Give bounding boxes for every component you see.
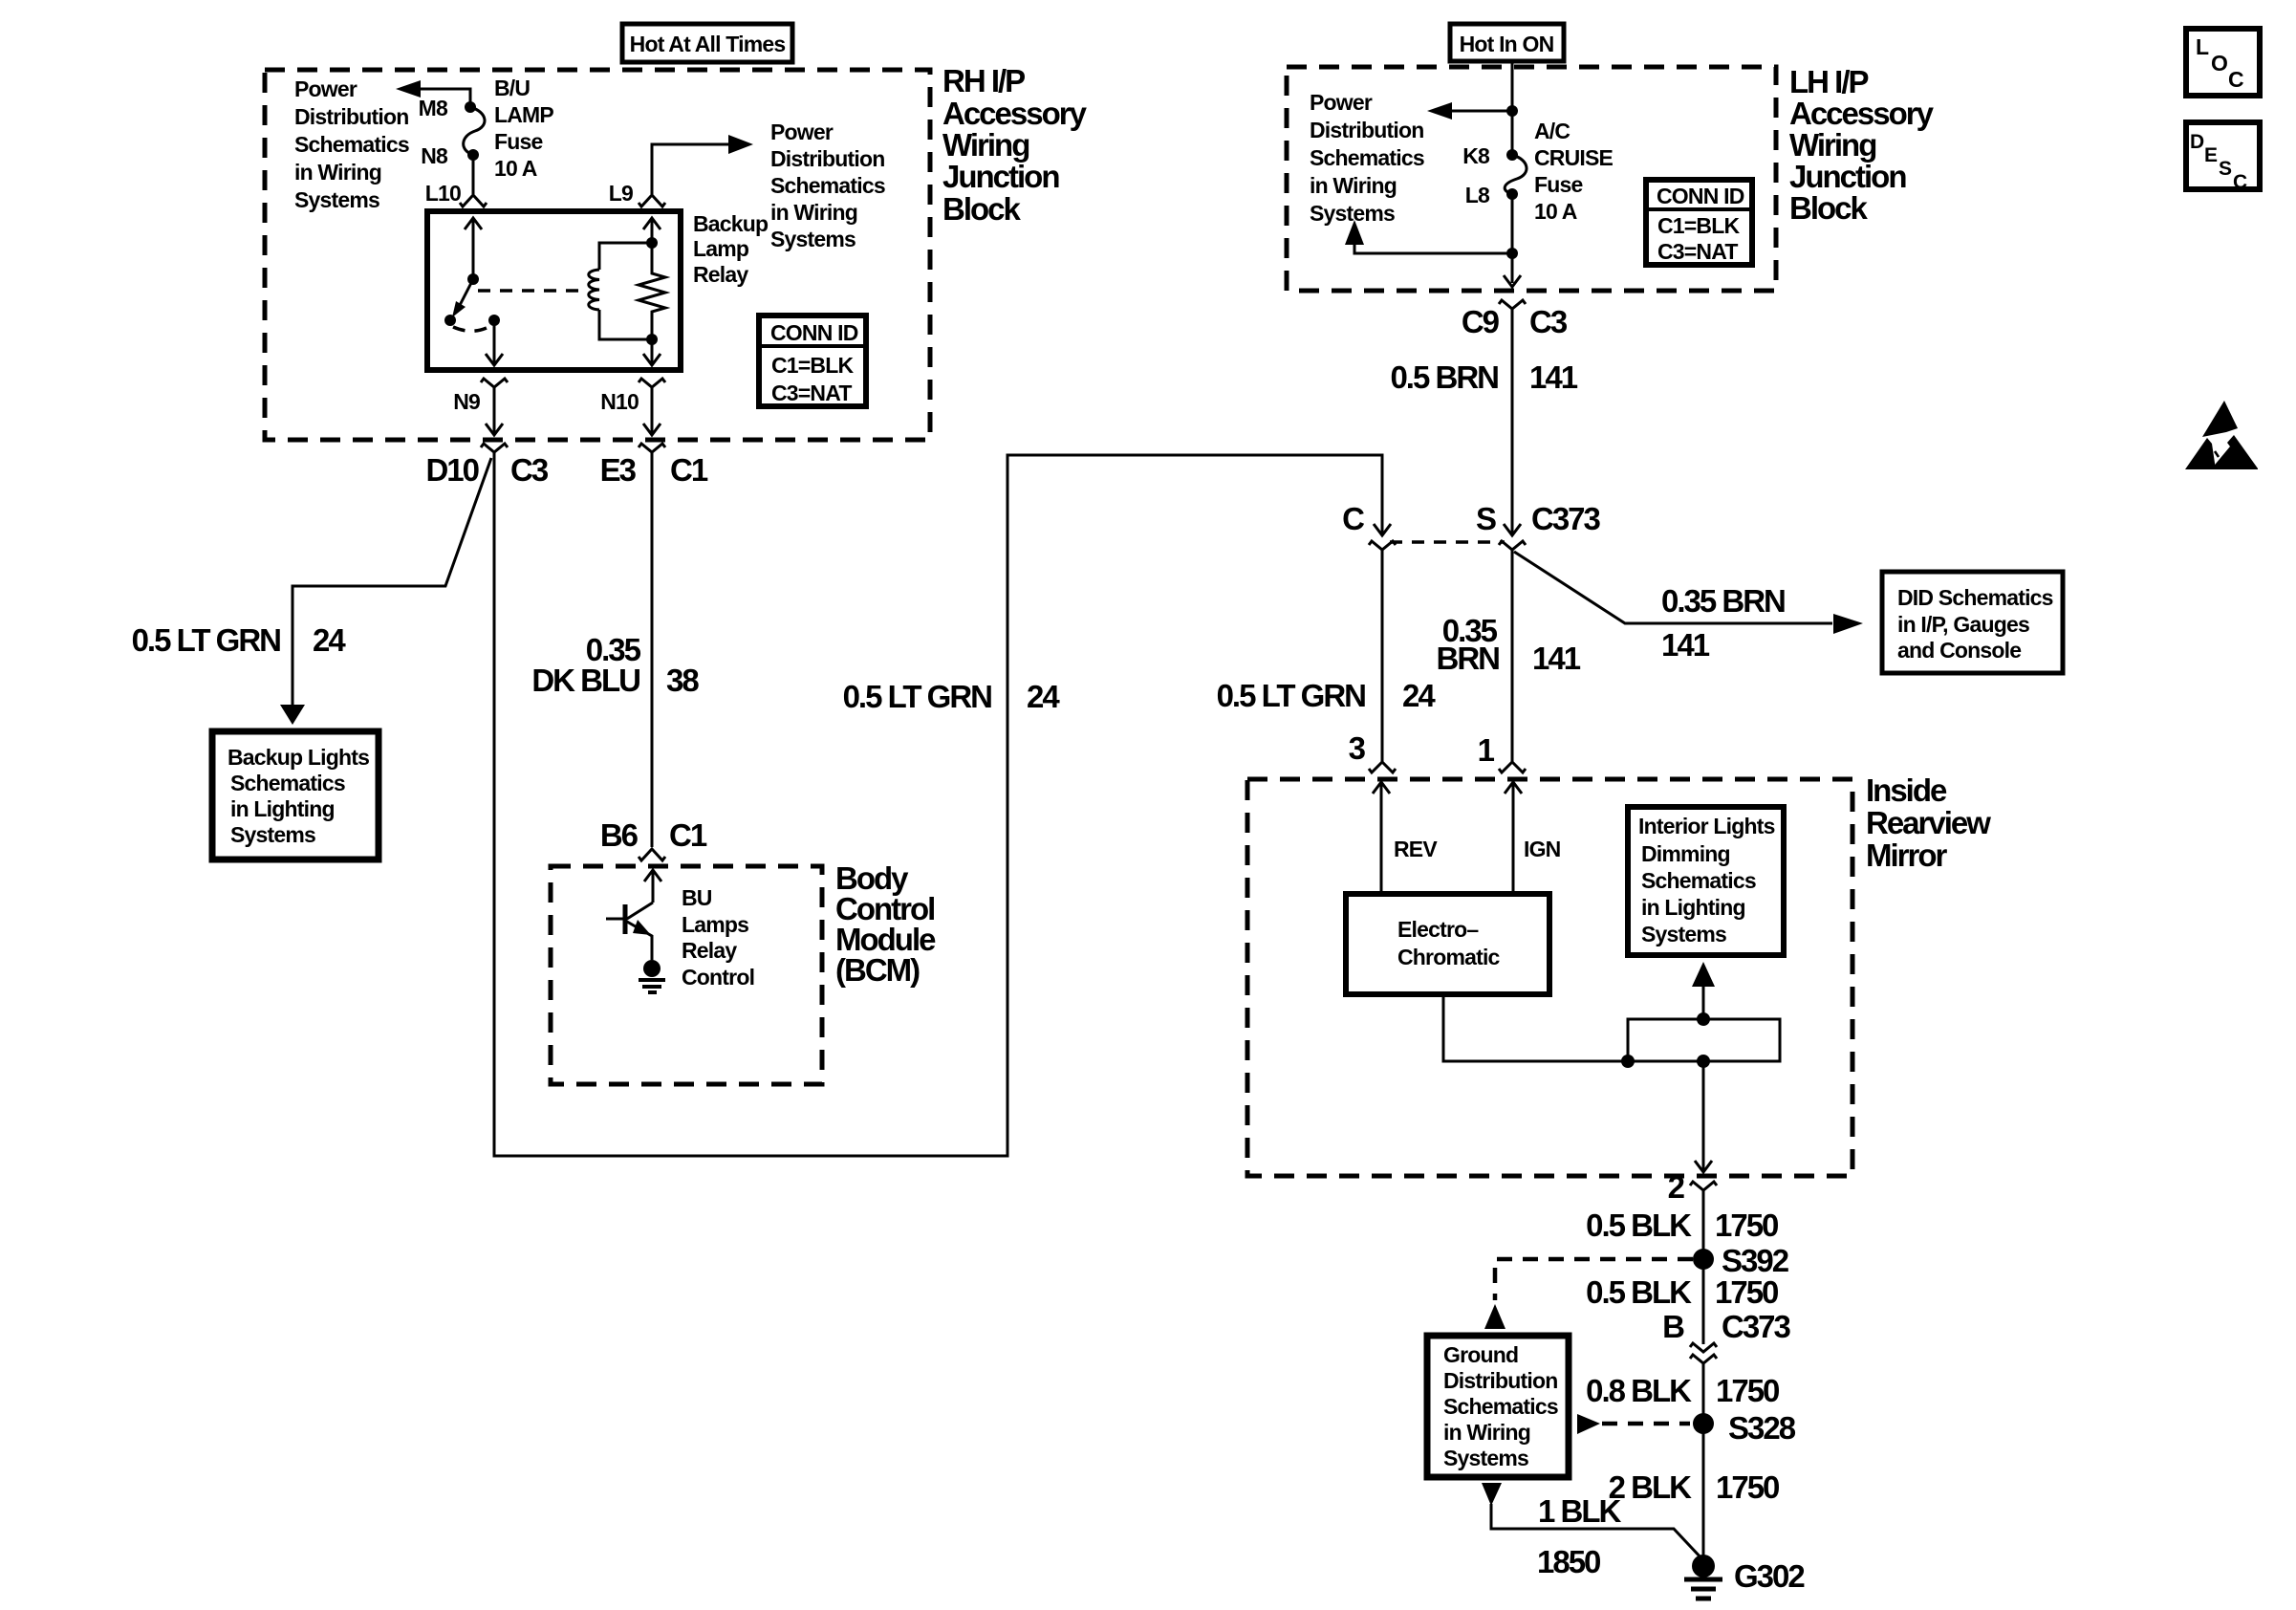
label "Inside Rearview Mirror"	[1866, 772, 1991, 873]
relay switch pivot dot	[467, 273, 479, 285]
wire down from rect tap to box edge with arrow	[1695, 1061, 1712, 1172]
fuse F-BU top terminal dot M8	[465, 101, 476, 113]
svg-text:Lamps: Lamps	[682, 912, 748, 937]
LH I/P Accessory Wiring Junction Block dashed box	[1287, 67, 1776, 291]
svg-text:CONN ID: CONN ID	[1657, 184, 1744, 208]
junction dot coil bottom	[646, 334, 658, 345]
svg-text:Schematics: Schematics	[294, 132, 409, 157]
svg-text:C3=NAT: C3=NAT	[771, 381, 852, 405]
relay right pin arrow (up)	[643, 218, 661, 243]
dashed reference from box to S328	[1602, 1422, 1690, 1426]
svg-text:in Wiring: in Wiring	[1310, 173, 1397, 198]
fuse F-BU bottom terminal dot N8	[467, 149, 479, 161]
svg-text:Systems: Systems	[770, 227, 856, 251]
label box "Hot In ON"	[1450, 24, 1564, 61]
connector chevron C9 (opens up)	[1499, 300, 1526, 309]
svg-text:141: 141	[1532, 641, 1581, 676]
svg-text:C: C	[2228, 67, 2243, 92]
svg-text:D10: D10	[425, 452, 478, 488]
text "B/U LAMP Fuse 10 A"	[494, 76, 553, 181]
svg-text:Schematics: Schematics	[1443, 1394, 1558, 1419]
svg-text:Distribution: Distribution	[1310, 118, 1423, 142]
wire C9 down to S	[1511, 309, 1514, 535]
svg-text:Fuse: Fuse	[494, 129, 542, 154]
svg-text:0.5 LT GRN: 0.5 LT GRN	[132, 622, 281, 658]
wire fuse to L10	[472, 155, 475, 194]
svg-text:N8: N8	[421, 143, 448, 168]
svg-text:CONN ID: CONN ID	[770, 320, 858, 345]
svg-text:1 BLK: 1 BLK	[1538, 1493, 1622, 1529]
text "Power Distribution Schematics in Wiring Systems" (LH)	[1310, 90, 1424, 226]
svg-text:Distribution: Distribution	[1443, 1368, 1557, 1393]
svg-text:Systems: Systems	[1641, 922, 1726, 946]
connector chevron 3 (opens down)	[1369, 762, 1396, 772]
svg-text:Junction: Junction	[942, 159, 1059, 194]
connector chevron C (opens up)	[1369, 541, 1396, 550]
svg-text:0.35 BRN: 0.35 BRN	[1661, 583, 1785, 619]
svg-text:in Wiring: in Wiring	[1443, 1420, 1530, 1445]
svg-text:Electro–: Electro–	[1397, 917, 1479, 942]
svg-text:0.5 BRN: 0.5 BRN	[1390, 359, 1498, 395]
Interior Lights Dimming box	[1628, 807, 1784, 955]
DESC legend box	[2186, 122, 2260, 193]
svg-text:N10: N10	[600, 389, 639, 414]
triangle right (ref)	[1577, 1414, 1600, 1434]
svg-text:C3=NAT: C3=NAT	[1657, 239, 1738, 264]
svg-text:RH I/P: RH I/P	[942, 63, 1025, 98]
wire L9 up and right to power distribution	[652, 144, 728, 194]
svg-text:N9: N9	[453, 389, 480, 414]
LOC legend box	[2186, 29, 2260, 96]
svg-text:M8: M8	[419, 96, 448, 120]
svg-text:Ground: Ground	[1443, 1342, 1518, 1367]
relay switch contact dot (left)	[444, 315, 456, 326]
wire EC bottom to dimmer rect	[1443, 994, 1626, 1061]
svg-text:Rearview: Rearview	[1866, 805, 1991, 840]
junction dot rect top tap	[1697, 1012, 1710, 1026]
svg-text:B/U: B/U	[494, 76, 530, 100]
svg-text:BRN: BRN	[1437, 641, 1500, 676]
connector chevron 1 (opens down)	[1499, 762, 1526, 772]
arrowhead down at S	[1504, 524, 1521, 535]
BCM ground symbol	[639, 980, 665, 992]
text "Power Distribution Schematics in Wiring Systems" (RH)	[294, 76, 409, 212]
svg-text:C1: C1	[670, 452, 708, 488]
svg-text:K8: K8	[1462, 143, 1490, 168]
svg-text:Accessory: Accessory	[942, 96, 1088, 131]
svg-text:1850: 1850	[1537, 1544, 1600, 1579]
svg-text:C9: C9	[1462, 304, 1500, 339]
text "A/C CRUISE Fuse 10 A"	[1534, 119, 1614, 224]
svg-text:Backup: Backup	[693, 211, 769, 236]
svg-text:C: C	[2233, 171, 2247, 193]
Backup Lights Schematics box	[212, 731, 379, 859]
wire fuse down + branch left and up with arrowhead	[1354, 194, 1512, 283]
BCM dashed box	[551, 866, 822, 1084]
svg-text:1750: 1750	[1716, 1373, 1779, 1408]
connector chevron S (opens up)	[1499, 541, 1526, 550]
wire D10 long run: down, right, up, right to C	[494, 452, 1382, 1156]
ground G302 dot	[1692, 1555, 1715, 1577]
svg-text:Schematics: Schematics	[770, 173, 885, 198]
REV wire with arrow up	[1373, 782, 1390, 894]
svg-text:Systems: Systems	[1443, 1446, 1528, 1470]
svg-text:1750: 1750	[1715, 1207, 1778, 1243]
CONN ID table (RH)	[759, 315, 866, 406]
svg-text:C373: C373	[1722, 1309, 1791, 1344]
CONN ID table (LH)	[1646, 180, 1752, 265]
transistor Q1 collector	[627, 903, 653, 919]
svg-text:B6: B6	[600, 817, 639, 853]
svg-text:LAMP: LAMP	[494, 102, 553, 127]
label "LH I/P Accessory Wiring Junction Block"	[1789, 64, 1935, 226]
BCM input arrow (up)	[644, 870, 661, 903]
wire 1 BLK 1850 from triangle to G302	[1491, 1504, 1703, 1560]
relay right pin lower wire with arrow (down)	[643, 339, 661, 365]
svg-text:1750: 1750	[1716, 1469, 1779, 1505]
svg-text:S: S	[2219, 158, 2232, 180]
svg-text:10 A: 10 A	[494, 156, 537, 181]
ground G302 symbol	[1684, 1579, 1722, 1599]
svg-text:0.5 LT GRN: 0.5 LT GRN	[843, 679, 992, 714]
svg-text:0.8 BLK: 0.8 BLK	[1586, 1373, 1692, 1408]
svg-text:Mirror: Mirror	[1866, 838, 1948, 873]
svg-text:E: E	[2204, 144, 2218, 166]
svg-text:38: 38	[666, 663, 699, 698]
svg-text:Systems: Systems	[230, 822, 315, 847]
dashed reference from S392 to Ground Distribution box	[1495, 1259, 1693, 1300]
svg-text:Interior Lights: Interior Lights	[1638, 814, 1775, 838]
dashed link switch to coil	[478, 289, 582, 293]
svg-text:2: 2	[1668, 1169, 1685, 1205]
label box "Hot At All Times"	[622, 24, 792, 62]
svg-text:Systems: Systems	[1310, 201, 1395, 226]
svg-text:in I/P, Gauges: in I/P, Gauges	[1897, 612, 2029, 637]
svg-text:Relay: Relay	[682, 938, 737, 963]
ESD sensitivity symbol	[2185, 401, 2258, 469]
connector chevron D10 (opens up)	[481, 444, 508, 452]
svg-text:B: B	[1662, 1309, 1684, 1344]
wire from Hot In ON down	[1511, 60, 1514, 155]
svg-text:0.5 BLK: 0.5 BLK	[1586, 1207, 1692, 1243]
svg-text:141: 141	[1529, 359, 1578, 395]
svg-text:0.5 LT GRN: 0.5 LT GRN	[1217, 678, 1366, 713]
svg-text:L9: L9	[609, 181, 633, 206]
svg-text:Block: Block	[1789, 190, 1869, 226]
svg-text:Chromatic: Chromatic	[1397, 945, 1501, 969]
connector chevron N9 (opens up) + wire to box edge with arrow	[481, 379, 508, 435]
svg-text:Distribution: Distribution	[770, 146, 884, 171]
svg-text:Schematics: Schematics	[1310, 145, 1424, 170]
connector chevron E3 (opens up)	[639, 444, 665, 452]
svg-text:Wiring: Wiring	[942, 127, 1029, 163]
svg-text:C: C	[1342, 501, 1364, 536]
svg-text:Schematics: Schematics	[1641, 868, 1756, 893]
transistor Q1 base bar	[623, 904, 628, 934]
svg-text:BU: BU	[682, 885, 712, 910]
arrowhead left	[396, 80, 421, 98]
wire D10 branch: diagonal + left run to Backup Lights with arrow	[292, 458, 491, 705]
text "BU Lamps Relay Control"	[682, 885, 754, 990]
svg-text:Inside: Inside	[1866, 772, 1947, 808]
text "Backup Lamp Relay"	[693, 211, 769, 287]
wire C down to pin 3	[1381, 550, 1384, 762]
svg-text:C3: C3	[1529, 304, 1568, 339]
svg-text:Systems: Systems	[294, 187, 379, 212]
Ground Distribution Schematics box	[1427, 1336, 1569, 1477]
wire S down to pin 1	[1511, 550, 1514, 762]
svg-text:O: O	[2211, 51, 2227, 76]
relay resistor zigzag	[639, 243, 665, 339]
svg-text:1750: 1750	[1715, 1274, 1778, 1310]
connector chevron L10 (opens down)	[460, 195, 487, 207]
svg-text:C1: C1	[669, 817, 707, 853]
svg-text:Junction: Junction	[1789, 159, 1906, 194]
svg-text:and Console: and Console	[1897, 638, 2021, 663]
arrowhead down to Backup Lights box	[280, 705, 305, 725]
DID Schematics box	[1882, 572, 2063, 673]
svg-text:Hot In ON: Hot In ON	[1460, 32, 1554, 56]
relay coil (4 arcs)	[589, 270, 599, 310]
arrow up from rect to Interior Lights box	[1702, 987, 1705, 1019]
svg-text:Block: Block	[942, 191, 1022, 227]
svg-text:DID Schematics: DID Schematics	[1897, 585, 2053, 610]
svg-text:Power: Power	[770, 120, 834, 144]
svg-text:C3: C3	[510, 452, 549, 488]
svg-text:Schematics: Schematics	[230, 771, 345, 795]
connector chevron N10 (opens up) + wire to box edge with arrow	[639, 379, 665, 435]
text "Power Distribution Schematics in Wiring Systems" (right ref)	[770, 120, 885, 251]
fuse F-AC bottom terminal dot L8	[1506, 188, 1518, 200]
relay switch arm with arrowhead	[456, 279, 473, 313]
junction dot coil top	[646, 237, 658, 249]
svg-text:3: 3	[1349, 730, 1366, 766]
svg-text:Power: Power	[294, 76, 357, 101]
svg-text:C373: C373	[1531, 501, 1601, 536]
relay switch contact dot (N9 side)	[488, 315, 500, 326]
svg-text:in Wiring: in Wiring	[770, 200, 857, 225]
arrowhead down at LH box exit	[1504, 275, 1521, 287]
svg-text:Distribution: Distribution	[294, 104, 408, 129]
svg-text:C1=BLK: C1=BLK	[1657, 213, 1740, 238]
splice dot S392	[1693, 1249, 1714, 1270]
svg-text:Fuse: Fuse	[1534, 172, 1582, 197]
svg-text:in Wiring: in Wiring	[294, 160, 381, 185]
junction dot rect bottom tap	[1697, 1055, 1710, 1068]
fuse element B/U LAMP Fuse	[464, 107, 485, 155]
connector chevron L9 (opens down)	[639, 195, 665, 207]
relay switch output wire with arrow (down)	[486, 320, 503, 365]
label "RH I/P Accessory Wiring Junction Block"	[942, 63, 1088, 227]
svg-text:IGN: IGN	[1524, 837, 1561, 861]
svg-text:CRUISE: CRUISE	[1534, 145, 1614, 170]
svg-text:E3: E3	[600, 452, 637, 488]
RH I/P Accessory Wiring Junction Block dashed box	[265, 70, 930, 440]
svg-text:10 A: 10 A	[1534, 199, 1577, 224]
triangle down below Ground box	[1482, 1483, 1502, 1506]
svg-text:Dimming: Dimming	[1641, 841, 1730, 866]
Electro-Chromatic box	[1346, 894, 1549, 994]
svg-text:Accessory: Accessory	[1789, 96, 1935, 131]
svg-text:1: 1	[1478, 732, 1495, 768]
transistor Q1 emitter with arrow	[627, 922, 652, 960]
svg-text:Backup Lights: Backup Lights	[227, 745, 369, 770]
BCM ground dot	[643, 960, 661, 977]
svg-text:Lamp: Lamp	[693, 236, 749, 261]
relay left pin arrow (up)	[465, 218, 482, 279]
svg-text:Power: Power	[1310, 90, 1373, 115]
svg-text:in Lighting: in Lighting	[1641, 895, 1745, 920]
relay coil top rail	[599, 243, 652, 270]
junction dot (branch to power dist)	[1506, 105, 1518, 117]
dashed travel arc between contacts	[453, 326, 490, 331]
svg-text:D: D	[2190, 131, 2204, 153]
Backup Lamp Relay box	[427, 211, 681, 370]
splice dot S328	[1693, 1413, 1714, 1434]
arrowhead right	[728, 135, 753, 154]
svg-text:G302: G302	[1734, 1558, 1805, 1594]
junction dot rect bottom-left	[1621, 1055, 1635, 1068]
svg-text:A/C: A/C	[1534, 119, 1570, 143]
svg-text:Relay: Relay	[693, 262, 748, 287]
svg-text:141: 141	[1661, 627, 1710, 663]
svg-text:LH I/P: LH I/P	[1789, 64, 1868, 99]
transistor Q1 base lead	[606, 918, 623, 921]
svg-text:S392: S392	[1722, 1243, 1789, 1278]
IGN wire with arrow up	[1505, 782, 1522, 894]
svg-text:L8: L8	[1465, 183, 1490, 207]
wire branch left with arrowhead	[1450, 110, 1512, 113]
wire B down to S328	[1702, 1363, 1705, 1566]
connector chevron 2 (opens up)	[1690, 1182, 1717, 1190]
svg-text:Control: Control	[682, 965, 754, 990]
wire E3 down to B6	[651, 452, 654, 847]
triangle up (ref)	[1484, 1304, 1505, 1329]
svg-text:DK BLU: DK BLU	[531, 663, 639, 698]
svg-text:S328: S328	[1728, 1410, 1796, 1446]
fuse F-AC top terminal dot K8	[1506, 149, 1518, 161]
connector chevron B6 (opens down)	[639, 849, 665, 860]
double connector chevron B/C373	[1690, 1343, 1717, 1363]
svg-text:in Lighting: in Lighting	[230, 796, 335, 821]
svg-text:24: 24	[1027, 679, 1060, 714]
svg-text:REV: REV	[1394, 837, 1438, 861]
svg-text:Hot At All Times: Hot At All Times	[630, 32, 786, 56]
svg-text:24: 24	[1402, 678, 1436, 713]
svg-text:(BCM): (BCM)	[835, 952, 920, 988]
svg-text:S: S	[1476, 501, 1496, 536]
dashed link C to S	[1390, 540, 1505, 544]
wire S diagonal to DID reference with arrowhead	[1514, 552, 1832, 623]
svg-text:0.5 BLK: 0.5 BLK	[1586, 1274, 1692, 1310]
svg-text:Wiring: Wiring	[1789, 127, 1875, 163]
svg-text:L10: L10	[425, 181, 461, 206]
fuse element A/C CRUISE Fuse	[1505, 155, 1527, 194]
relay coil bottom rail	[599, 310, 652, 339]
dimmer rect	[1628, 1019, 1780, 1061]
wire 2 down to S392	[1702, 1190, 1705, 1344]
wire to power distribution (left arrow)	[419, 89, 470, 102]
svg-text:L: L	[2196, 34, 2209, 59]
svg-text:2 BLK: 2 BLK	[1609, 1469, 1693, 1505]
label "Body Control Module (BCM)"	[835, 860, 936, 988]
Inside Rearview Mirror dashed box	[1247, 779, 1852, 1176]
svg-text:24: 24	[313, 622, 346, 658]
svg-text:C1=BLK: C1=BLK	[771, 353, 854, 378]
arrowhead down at C	[1374, 524, 1391, 535]
